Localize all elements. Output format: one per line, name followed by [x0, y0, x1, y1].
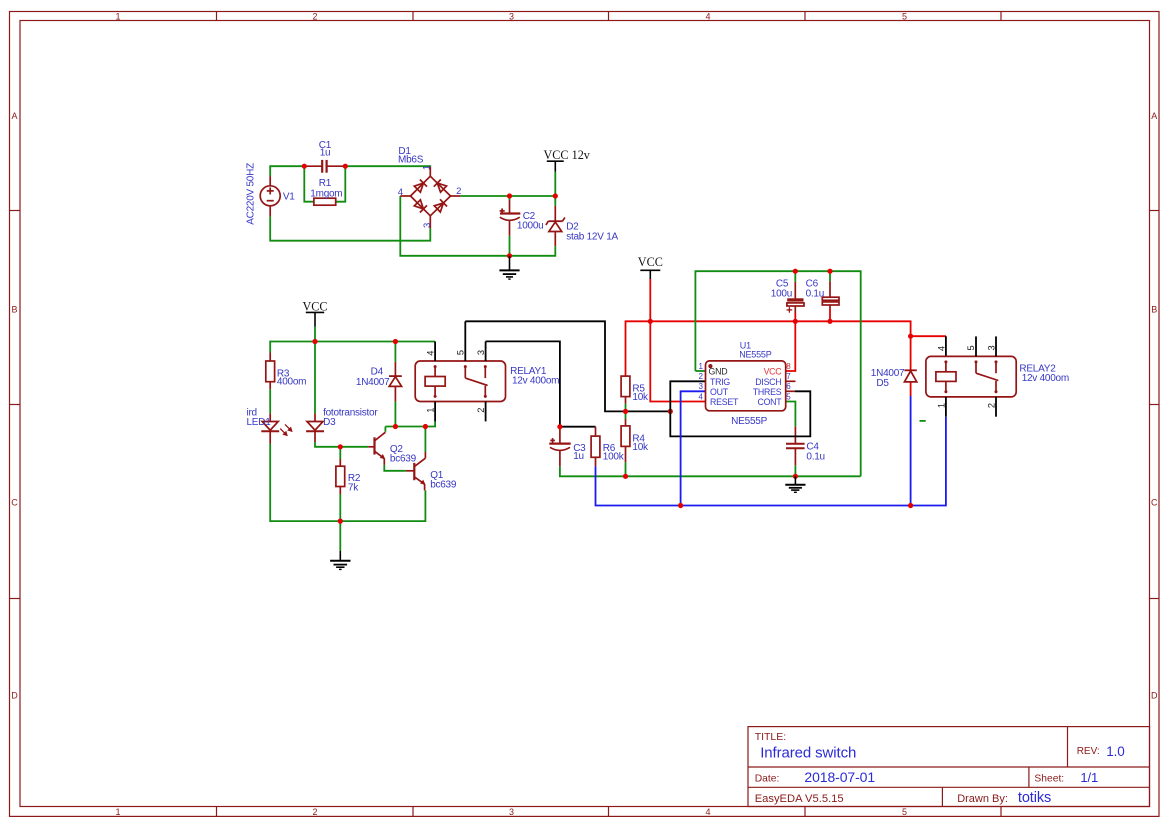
wire red VCC rail	[626, 321, 911, 376]
svg-text:3: 3	[509, 11, 514, 21]
junction TRIG cross	[668, 409, 673, 414]
svg-text:0.1u: 0.1u	[806, 289, 824, 300]
svg-text:VCC: VCC	[638, 255, 663, 269]
transistor Q2	[368, 432, 385, 465]
junction C4 bottom rail	[793, 474, 798, 479]
svg-text:VCC: VCC	[764, 367, 783, 377]
svg-text:2: 2	[699, 372, 704, 381]
wire node to relay pin1	[395, 421, 435, 426]
wire bridge pin2 to VCC node	[460, 195, 555, 197]
diode D4	[389, 362, 402, 402]
capacitor C3	[549, 444, 570, 451]
svg-text:1: 1	[115, 11, 120, 21]
wire red C5 bottom stub	[794, 313, 796, 321]
resistor R3	[269, 353, 271, 390]
svg-text:3: 3	[987, 345, 997, 350]
relay RELAY2	[926, 356, 1016, 397]
svg-text:0.1u: 0.1u	[806, 451, 824, 462]
op-amp U1 NE555P box	[706, 361, 786, 411]
svg-text:DISCH: DISCH	[755, 377, 781, 387]
junction C3 top	[557, 424, 562, 429]
junction R5/R4 node	[623, 409, 628, 414]
svg-text:D5: D5	[876, 378, 889, 389]
junction C1 right	[343, 164, 348, 169]
wire D3 top	[314, 342, 316, 414]
junction red rail C5	[793, 319, 798, 324]
svg-text:Drawn By:: Drawn By:	[957, 793, 1008, 805]
svg-text:Infrared switch: Infrared switch	[760, 745, 856, 762]
wire green C5 top stub	[794, 271, 796, 282]
junction rail/D4	[393, 339, 398, 344]
resistor R2	[339, 459, 341, 494]
wire C1 right to bridge pin1	[345, 165, 430, 168]
svg-text:LED1: LED1	[247, 417, 272, 428]
wire ground rail to D2 bottom	[510, 246, 556, 256]
svg-text:7k: 7k	[348, 483, 359, 494]
svg-text:1: 1	[115, 807, 120, 817]
wire rail to D4	[394, 342, 396, 362]
svg-text:1mgom: 1mgom	[310, 188, 342, 199]
svg-text:C: C	[11, 498, 18, 508]
relay1 pin stubs	[435, 321, 486, 421]
pin7 stub	[786, 380, 796, 382]
wire D4 bottom node	[385, 401, 395, 426]
pin6 stub	[786, 390, 795, 392]
wire D2 top stub	[554, 196, 556, 206]
svg-text:5: 5	[902, 11, 907, 21]
wire gnd stem	[339, 521, 341, 551]
wire red reset branch	[650, 321, 705, 401]
wire VCC to rail	[314, 327, 316, 342]
svg-text:1u: 1u	[320, 147, 331, 158]
LED light arrows	[280, 424, 292, 435]
svg-text:B: B	[11, 305, 17, 315]
wire green pin1	[695, 370, 705, 372]
svg-text:2: 2	[312, 11, 317, 21]
svg-text:bc639: bc639	[430, 480, 457, 491]
svg-text:A: A	[1151, 111, 1157, 121]
U1 pin numbers	[699, 362, 704, 402]
fototransistor D3	[306, 413, 324, 442]
svg-text:NE555P: NE555P	[739, 350, 772, 360]
svg-text:10k: 10k	[632, 392, 649, 403]
wire green gnd top rail	[695, 271, 860, 476]
capacitor C1	[322, 160, 326, 173]
wire top rail V1 to C1	[270, 166, 304, 176]
svg-text:EasyEDA V5.5.15: EasyEDA V5.5.15	[755, 793, 844, 805]
wire black TRIG net	[670, 381, 810, 436]
wire relay1 pin5 black	[465, 321, 670, 411]
zener D2	[546, 206, 565, 246]
svg-text:Mb6S: Mb6S	[398, 154, 424, 165]
wire R3 to LED	[269, 389, 271, 413]
svg-text:VCC 12v: VCC 12v	[544, 148, 591, 162]
svg-text:CONT: CONT	[757, 397, 782, 407]
junction C2 top	[507, 193, 512, 198]
ground under C4	[785, 476, 805, 492]
resistor R4	[625, 419, 627, 462]
wire V1 bottom to bridge pin3	[270, 216, 430, 240]
wire VCC rail	[270, 342, 435, 353]
svg-text:3: 3	[476, 350, 486, 355]
capacitor C6	[822, 281, 839, 309]
svg-text:A: A	[11, 111, 17, 121]
capacitor C2	[500, 214, 521, 221]
wire red D5	[910, 336, 912, 370]
wire green pin5 to C4	[786, 402, 796, 427]
wire R2 top stub	[339, 447, 341, 459]
svg-text:1N4007: 1N4007	[356, 377, 390, 388]
wire bridge pin4 down to ground rail	[400, 196, 509, 256]
svg-text:Sheet:: Sheet:	[1034, 774, 1064, 785]
junction D4 bottom	[393, 424, 398, 429]
junction C2 bottom	[507, 253, 512, 258]
wire blue OUT	[681, 391, 706, 505]
transistor Q1	[406, 452, 426, 490]
junction green rail C5	[793, 269, 798, 274]
green dash mark	[920, 420, 926, 422]
svg-text:1.0: 1.0	[1106, 744, 1124, 759]
wire green R4 bottom	[625, 462, 627, 476]
svg-text:2018-07-01: 2018-07-01	[804, 769, 875, 785]
bridge rectifier D1	[400, 167, 460, 229]
svg-text:OUT: OUT	[710, 387, 729, 397]
junction bottom rail	[338, 519, 343, 524]
junction red rail VCC stem	[648, 319, 653, 324]
relay RELAY1	[415, 361, 505, 402]
wire VCC stem red	[649, 279, 651, 321]
wire R1 left branch	[304, 166, 314, 202]
wire red C6 bottom stub	[829, 309, 831, 321]
svg-text:THRES: THRES	[753, 387, 782, 397]
resistor R1	[314, 198, 336, 205]
svg-text:1: 1	[426, 408, 436, 413]
svg-text:3: 3	[699, 382, 704, 391]
svg-text:1000u: 1000u	[517, 221, 544, 232]
relay2 pin stubs	[946, 336, 996, 416]
svg-text:12v 400om: 12v 400om	[1022, 373, 1069, 384]
wire C2 bottom stub	[509, 236, 511, 256]
wire red D5 bottom	[910, 382, 912, 396]
svg-text:2: 2	[987, 403, 997, 408]
wire R2 bottom	[339, 494, 341, 521]
VCC flag right	[640, 270, 660, 279]
svg-text:5: 5	[786, 392, 791, 401]
wire Q2 emitter to Q1 base	[384, 465, 406, 471]
wire VCC stem	[554, 172, 556, 196]
wire green C6 top stub	[829, 271, 831, 281]
svg-text:2: 2	[476, 408, 486, 413]
diode D5	[904, 370, 916, 382]
svg-text:D3: D3	[323, 417, 336, 428]
svg-text:NE555P: NE555P	[731, 416, 768, 427]
svg-text:6: 6	[786, 382, 791, 391]
junction Q1 collector node	[423, 424, 428, 429]
wire Q1 collector up	[424, 427, 426, 453]
wire C2 top stub	[509, 196, 511, 200]
svg-text:2: 2	[456, 186, 461, 197]
resistor R6	[595, 427, 597, 467]
wire green R5 bottom to R4 top	[625, 404, 627, 419]
wire blue to relay2	[681, 417, 946, 506]
svg-text:1u: 1u	[573, 451, 584, 462]
svg-text:bc639: bc639	[390, 453, 417, 464]
wire bottom rail right	[340, 490, 425, 521]
svg-text:1/1: 1/1	[1080, 770, 1098, 785]
wire R1 right branch	[336, 166, 346, 202]
svg-text:TRIG: TRIG	[710, 377, 730, 387]
svg-text:1: 1	[699, 362, 704, 371]
svg-text:C: C	[1151, 498, 1158, 508]
svg-text:4: 4	[426, 351, 436, 356]
LED1	[261, 413, 279, 443]
TITLE BLOCK	[748, 727, 1150, 807]
svg-text:5: 5	[455, 350, 465, 355]
junction red corner D5	[908, 334, 913, 339]
svg-text:4: 4	[936, 346, 946, 351]
svg-text:AC220V 50HZ: AC220V 50HZ	[246, 163, 257, 225]
svg-text:D: D	[11, 691, 18, 701]
capacitor C4	[786, 427, 805, 466]
svg-text:stab 12V 1A: stab 12V 1A	[566, 232, 618, 243]
pin1 indicator dot	[708, 364, 712, 368]
svg-text:4: 4	[699, 392, 704, 401]
wire LED bottom to bottom rail	[270, 444, 340, 522]
junction C1 left	[302, 164, 307, 169]
svg-text:100u: 100u	[771, 289, 792, 300]
svg-text:B: B	[1151, 305, 1157, 315]
VCC 12v power flag	[547, 161, 564, 172]
junction green rail C6	[827, 269, 832, 274]
svg-text:V1: V1	[283, 192, 295, 203]
wire blue R6 branch	[596, 466, 681, 505]
resistor R5	[625, 397, 627, 404]
U1 pin names	[709, 367, 783, 408]
svg-text:GND: GND	[709, 367, 728, 377]
svg-text:7: 7	[786, 372, 791, 381]
junction blue D5	[908, 503, 913, 508]
junction red rail C6	[827, 319, 832, 324]
svg-text:4: 4	[705, 807, 710, 817]
wire red pin8	[786, 321, 796, 371]
svg-text:D: D	[1151, 691, 1158, 701]
svg-text:100k: 100k	[603, 452, 625, 463]
AC source V1	[260, 176, 280, 216]
svg-text:12v 400om: 12v 400om	[512, 376, 559, 387]
wire red to relay2 pin4	[911, 335, 946, 337]
ground under R2	[330, 551, 350, 570]
svg-text:3: 3	[509, 807, 514, 817]
svg-text:8: 8	[786, 362, 791, 371]
svg-text:4: 4	[705, 11, 710, 21]
svg-text:2: 2	[312, 807, 317, 817]
junction blue OUT	[678, 503, 683, 508]
svg-text:5: 5	[902, 807, 907, 817]
junction D2 top / VCC	[553, 193, 558, 198]
svg-text:3: 3	[422, 223, 433, 228]
svg-text:REV:: REV:	[1077, 746, 1100, 757]
svg-text:1: 1	[422, 165, 433, 170]
svg-text:TITLE:: TITLE:	[755, 731, 787, 743]
wire Q2 collector	[384, 427, 386, 432]
capacitor C5	[787, 282, 804, 313]
junction R4 bottom rail	[623, 474, 628, 479]
svg-text:1: 1	[936, 403, 946, 408]
wire relay1 pin3 black	[486, 341, 596, 426]
svg-text:5: 5	[966, 345, 976, 350]
svg-text:RESET: RESET	[710, 397, 739, 407]
junction rail/D3	[312, 339, 317, 344]
wire green C4 bottom stub	[794, 465, 796, 476]
junction base node	[338, 444, 343, 449]
svg-text:4: 4	[398, 187, 403, 198]
svg-text:Date:: Date:	[755, 774, 780, 785]
wire D3 bottom to base node	[315, 442, 368, 447]
ground under C2	[499, 256, 519, 279]
svg-text:totiks: totiks	[1018, 790, 1051, 806]
svg-text:10k: 10k	[632, 442, 649, 453]
wire blue D5 bottom	[910, 396, 912, 506]
wire green bottom rail	[560, 466, 861, 476]
svg-text:400om: 400om	[277, 376, 306, 387]
VCC flag middle	[306, 312, 324, 326]
svg-text:VCC: VCC	[302, 300, 327, 314]
